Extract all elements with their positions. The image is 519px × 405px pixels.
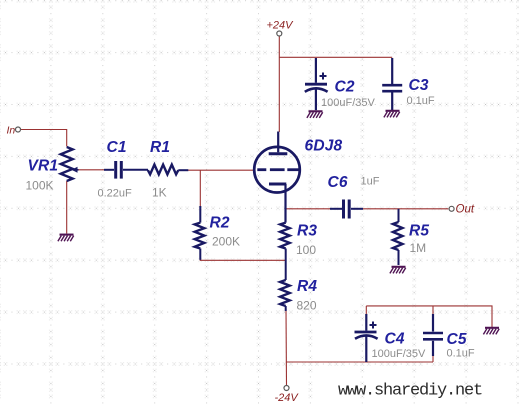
svg-text:100uF/35V: 100uF/35V: [372, 348, 426, 360]
wire: C4 top stub: [365, 306, 367, 316]
resistor R3: [280, 223, 290, 249]
wire: -24V bottom rail: [286, 361, 433, 363]
svg-text:In: In: [7, 124, 16, 136]
svg-text:VR1: VR1: [28, 158, 59, 175]
terminal In: [16, 127, 21, 132]
svg-text:0.22uF: 0.22uF: [98, 188, 133, 200]
svg-text:C6: C6: [328, 174, 348, 191]
svg-text:C4: C4: [385, 331, 405, 348]
svg-text:0.1uF: 0.1uF: [407, 95, 435, 107]
wire: R3 to R4 lead: [285, 249, 287, 281]
resistor R5: [393, 209, 403, 265]
svg-text:820: 820: [297, 299, 317, 313]
triode cathode: [269, 184, 286, 223]
resistor R1: [148, 165, 188, 175]
svg-text:200K: 200K: [212, 235, 240, 249]
svg-text:Out: Out: [456, 203, 475, 215]
svg-text:1K: 1K: [152, 186, 167, 200]
svg-text:-24V: -24V: [275, 392, 300, 404]
wire: R4 bottom down to -24V terminal: [285, 309, 288, 385]
triode plate: [269, 132, 288, 154]
ground (C3): [384, 111, 400, 118]
svg-text:100uF/35V: 100uF/35V: [321, 97, 375, 109]
wire: VR1 wiper to C1: [78, 169, 104, 171]
wire: node down to R2: [199, 170, 201, 207]
svg-text:C1: C1: [107, 139, 127, 156]
svg-text:+24V: +24V: [267, 20, 295, 32]
wire: C5 top stub: [432, 306, 434, 316]
wire: cathode node to C6: [286, 208, 330, 210]
ground (VR1): [58, 235, 74, 242]
wire: R1 to tube grid, node at R2: [188, 169, 254, 171]
wire: C5 bottom stub: [432, 352, 434, 362]
wire: VR1 bottom to ground: [66, 181, 68, 234]
wire: C6 to Out terminal, node at R5: [362, 208, 448, 210]
svg-text:C5: C5: [447, 331, 467, 348]
svg-text:R2: R2: [210, 215, 230, 232]
triode U1 6DJ8 envelope: [254, 147, 300, 193]
svg-text:1uF: 1uF: [361, 176, 380, 188]
terminal -24V: [284, 386, 289, 391]
svg-text:R3: R3: [297, 223, 317, 240]
capacitor C5: [423, 314, 443, 356]
ground (C2): [307, 111, 323, 118]
capacitor C2 (electrolytic): [305, 58, 328, 110]
resistor R2: [195, 206, 205, 260]
terminal +24V: [277, 31, 282, 36]
svg-text:C3: C3: [409, 77, 429, 94]
svg-text:R1: R1: [150, 139, 170, 156]
wire: In terminal to VR1 top: [21, 130, 67, 147]
svg-text:1M: 1M: [410, 241, 427, 255]
svg-text:R5: R5: [409, 223, 429, 240]
potentiometer VR1: [61, 147, 79, 181]
svg-text:C2: C2: [335, 79, 355, 96]
svg-text:100: 100: [296, 243, 316, 257]
capacitor C1: [104, 161, 148, 179]
svg-text:0.1uF: 0.1uF: [447, 348, 475, 360]
ground (R5): [390, 267, 406, 274]
capacitor C3: [382, 58, 402, 110]
svg-text:100K: 100K: [26, 179, 54, 193]
wire: +24V terminal down to tube plate: [278, 36, 280, 132]
wire: +24V rail to C2 C3: [279, 56, 392, 58]
svg-text:R4: R4: [297, 278, 317, 295]
triode grid (dashed): [257, 168, 299, 171]
capacitor C6: [330, 200, 363, 219]
terminal Out: [449, 206, 454, 211]
svg-text:www.sharediy.net: www.sharediy.net: [338, 382, 482, 401]
ground (C4/C5 rail): [483, 328, 499, 335]
capacitor C4 (electrolytic): [355, 314, 378, 362]
wire: ground rail above C4 C5: [366, 306, 492, 327]
resistor R4: [280, 280, 290, 311]
wire: R2 bottom to cathode chain: [200, 252, 286, 260]
svg-text:6DJ8: 6DJ8: [305, 138, 343, 155]
